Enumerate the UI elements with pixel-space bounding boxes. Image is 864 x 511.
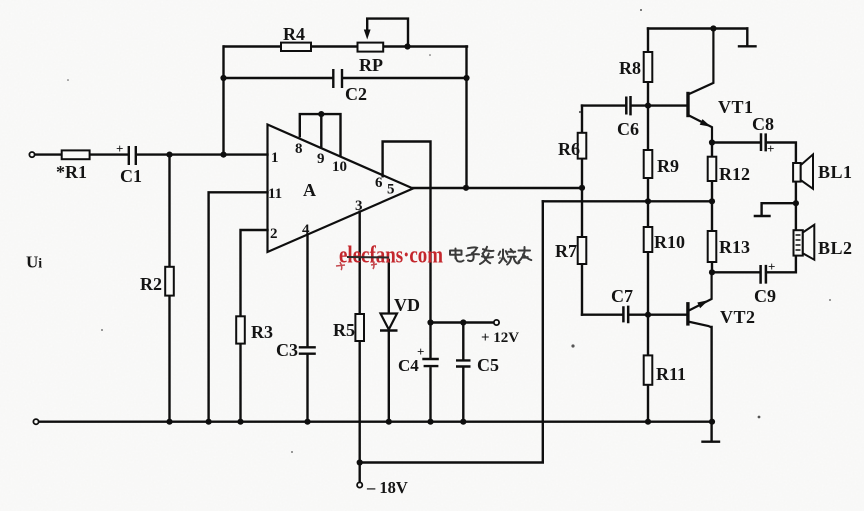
- svg-text:R9: R9: [657, 156, 679, 176]
- wire VT2 collector down to bottom rail: [710, 327, 712, 422]
- junction -18V node: [357, 459, 363, 465]
- svg-text:C7: C7: [611, 286, 633, 306]
- junction output R6 R7: [579, 185, 585, 191]
- resistor R6: [578, 133, 587, 159]
- terminal input bottom: [33, 419, 38, 424]
- wire top feedback rail R4/RP row: [224, 45, 467, 47]
- svg-text:6: 6: [375, 175, 383, 191]
- watermark red scribbles: [336, 261, 377, 270]
- junction bottom rail R3: [237, 419, 243, 425]
- resistor R13: [708, 231, 717, 262]
- resistor R10: [644, 227, 653, 252]
- resistor R9: [644, 150, 653, 178]
- wire pin4 / C3 branch: [306, 235, 308, 422]
- terminal -18V: [357, 482, 362, 487]
- junction bottom rail C3: [304, 419, 310, 425]
- svg-text:R10: R10: [654, 232, 685, 252]
- scan speckles: [67, 9, 831, 453]
- junction C2 row left: [220, 75, 226, 81]
- wire left drop from top rail to input node: [222, 47, 224, 155]
- junction +12V C5: [460, 319, 466, 325]
- wire C8 row: [712, 143, 796, 164]
- svg-text:C1: C1: [120, 166, 142, 186]
- wire C7 row to VT2 base: [582, 314, 686, 316]
- wire pin3 / R5 branch to -18V: [360, 201, 543, 462]
- resistor R4: [281, 43, 311, 51]
- svg-text:5: 5: [387, 182, 395, 198]
- junction bottom rail R11: [645, 419, 651, 425]
- junction +12V C4: [427, 319, 433, 325]
- ground between BL1 BL2: [755, 215, 770, 217]
- svg-text:C5: C5: [477, 355, 499, 375]
- capacitor C4 plates: [422, 359, 439, 366]
- wire VD branch: [388, 260, 390, 422]
- wire top supply rail: [648, 27, 747, 29]
- wire input row pin1: [34, 153, 268, 155]
- junction bottom rail VT2 ground: [709, 419, 715, 425]
- junction output feedback: [463, 185, 469, 191]
- capacitor C9 plates: [761, 265, 766, 284]
- svg-text:1: 1: [271, 150, 279, 166]
- junction input node feedback: [220, 152, 226, 158]
- svg-text:R13: R13: [719, 237, 750, 257]
- wire pin2 / R3 branch: [241, 230, 268, 422]
- wire R2 branch: [168, 155, 170, 422]
- junction pins 8-9-10 bar: [318, 111, 324, 117]
- wire -18V terminal drop: [359, 463, 361, 483]
- svg-text:8: 8: [295, 141, 303, 157]
- svg-text:VT1: VT1: [718, 97, 754, 117]
- svg-text:+: +: [116, 141, 123, 156]
- wire RP wiper loop: [367, 19, 408, 47]
- resistor R5: [355, 314, 364, 341]
- svg-text:4: 4: [302, 222, 310, 238]
- junction bottom rail pin11: [206, 419, 212, 425]
- wire R6 R7 column: [581, 106, 583, 315]
- transistor VT2 emitter arrow: [697, 300, 708, 308]
- capacitor C3 plates: [299, 347, 316, 353]
- svg-text:C9: C9: [754, 286, 776, 306]
- junction C7 R10 R11 VT2 base: [645, 312, 651, 318]
- svg-text:elecfans·com: elecfans·com: [339, 243, 443, 269]
- svg-text:R2: R2: [140, 274, 162, 294]
- junction bottom rail VD: [386, 419, 392, 425]
- svg-text:+: +: [768, 259, 775, 274]
- watermark strike line: [347, 256, 389, 259]
- wire C5 branch: [462, 323, 464, 422]
- diode VD: [381, 314, 398, 330]
- svg-text:– 18V: – 18V: [366, 478, 408, 497]
- svg-text:VD: VD: [394, 295, 420, 315]
- capacitor C2 plates: [333, 69, 342, 88]
- resistor R2: [165, 267, 174, 296]
- svg-text:C8: C8: [752, 114, 774, 134]
- wire C2 row: [224, 77, 467, 79]
- svg-text:R12: R12: [719, 164, 750, 184]
- ground bottom-right: [703, 422, 720, 442]
- resistor R11: [644, 355, 653, 384]
- svg-text:R3: R3: [251, 322, 273, 342]
- op-amp A body triangle: [268, 125, 414, 253]
- svg-text:R5: R5: [333, 320, 355, 340]
- svg-text:+ 12V: + 12V: [481, 330, 519, 346]
- svg-text:+: +: [767, 141, 774, 156]
- junction bottom rail R2: [166, 419, 172, 425]
- wire pins 8 9 10 loop: [300, 114, 341, 156]
- junction bottom rail C5: [460, 419, 466, 425]
- resistor R8: [644, 52, 653, 82]
- transistor VT1 emitter arrow: [700, 119, 712, 127]
- svg-text:C3: C3: [276, 340, 298, 360]
- svg-text:R4: R4: [283, 24, 305, 44]
- terminal +12V: [494, 320, 499, 325]
- svg-text:3: 3: [355, 198, 363, 214]
- svg-text:2: 2: [270, 226, 278, 242]
- potentiometer RP: [358, 43, 384, 52]
- svg-text:R6: R6: [558, 139, 580, 159]
- wire second rail: [543, 200, 712, 202]
- wire output row pin5: [413, 187, 582, 189]
- junction C9 R13 VT2 emitter: [709, 269, 715, 275]
- junction BL1 BL2 ground node: [793, 200, 799, 206]
- capacitor C5 plates: [456, 360, 471, 366]
- svg-text:R7: R7: [555, 241, 577, 261]
- wire pin11 branch: [209, 192, 268, 421]
- ground top-right: [739, 29, 756, 47]
- svg-text:9: 9: [317, 151, 325, 167]
- junction input node R2: [166, 152, 172, 158]
- wire right drop C2/RP to output row: [465, 47, 467, 188]
- svg-text:BL1: BL1: [818, 162, 853, 182]
- svg-text:R11: R11: [656, 364, 686, 384]
- junction R9 R10 rail: [645, 198, 651, 204]
- svg-text:C6: C6: [617, 119, 639, 139]
- svg-text:C2: C2: [345, 84, 367, 104]
- svg-text:A: A: [303, 180, 316, 200]
- capacitor C7 plates: [623, 306, 628, 324]
- svg-text:VT2: VT2: [720, 307, 756, 327]
- wire pin6 loop / C4 branch: [383, 142, 431, 422]
- watermark chinese characters 电子发烧友: [450, 247, 531, 265]
- resistor R1: [62, 150, 90, 159]
- wire bottom rail: [38, 421, 712, 423]
- capacitor C6 plates: [626, 96, 630, 115]
- svg-text:+: +: [417, 344, 424, 359]
- wire +12V row: [431, 321, 495, 323]
- wire R12 R13 column: [711, 143, 713, 273]
- junction VT1 emitter C8 R12: [709, 139, 715, 145]
- junction RP loop: [404, 43, 410, 49]
- transistor VT1: [688, 29, 713, 143]
- svg-text:*R1: *R1: [56, 162, 87, 182]
- resistor R12: [708, 157, 717, 181]
- svg-text:RP: RP: [359, 55, 383, 75]
- junction bottom rail C4: [427, 419, 433, 425]
- junction VT1 collector rail: [710, 25, 716, 31]
- transistor VT2: [688, 272, 712, 327]
- svg-text:11: 11: [268, 186, 282, 202]
- speaker BL1: [793, 163, 801, 182]
- svg-text:10: 10: [332, 159, 347, 175]
- wire BL1 to junction to BL2: [795, 182, 797, 230]
- RP wiper arrowhead: [364, 30, 371, 40]
- capacitor C8 plates: [761, 133, 766, 151]
- resistor R7: [578, 237, 587, 264]
- resistor R3: [236, 316, 245, 343]
- wire BL2 bottom to C9 row: [712, 256, 796, 273]
- speaker BL2: [794, 230, 803, 255]
- capacitor C1 plates: [129, 146, 136, 165]
- junction C2 row right: [463, 75, 469, 81]
- junction C6 R8 R9: [645, 103, 651, 109]
- wire C6 row to VT1 base: [582, 104, 687, 106]
- wire ground stub from BL1/BL2 node: [762, 203, 796, 215]
- junction R12 R13 rail: [709, 198, 715, 204]
- wire R8 R9 R10 R11 column: [647, 29, 649, 422]
- svg-text:BL2: BL2: [818, 238, 853, 258]
- svg-text:R8: R8: [619, 58, 641, 78]
- terminal input top: [29, 152, 34, 157]
